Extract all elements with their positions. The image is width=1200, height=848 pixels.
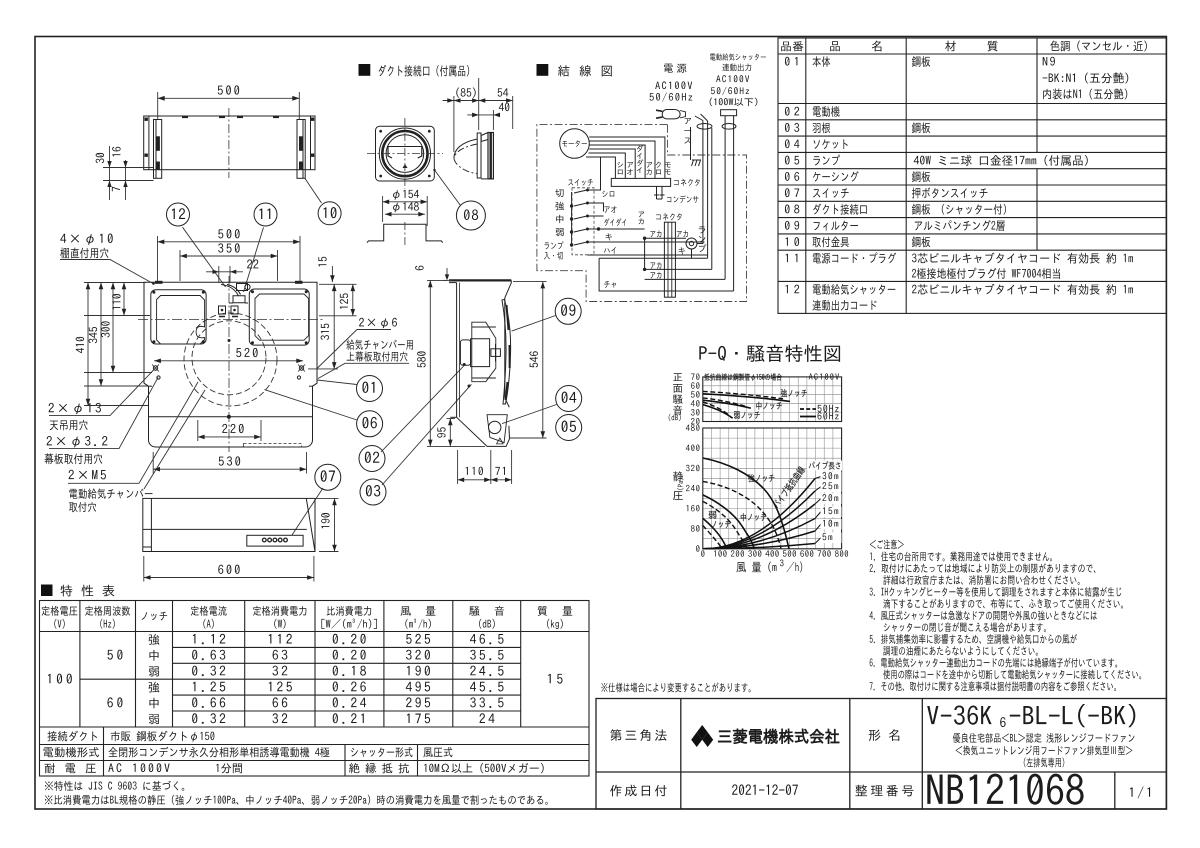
leader 08	[435, 170, 461, 206]
char table bottom rows	[47, 731, 97, 742]
y axis titles	[673, 373, 682, 381]
motor assembly	[460, 322, 496, 382]
motor	[560, 129, 590, 159]
title block grid	[596, 699, 1166, 810]
dim 530	[153, 452, 306, 474]
label electric chamber hole	[69, 488, 152, 498]
duct connector bottom profile	[367, 222, 443, 245]
dim 30 16 7	[103, 146, 154, 200]
switch	[568, 179, 593, 186]
x axis title	[736, 562, 776, 573]
shutter connector	[721, 110, 737, 116]
balloon 12	[167, 203, 190, 226]
dim 22 plan	[206, 266, 243, 283]
model name	[927, 705, 991, 724]
lamp compartment	[487, 415, 507, 444]
earth label	[684, 118, 691, 144]
duct connector side view	[454, 133, 494, 179]
duct connector front view	[376, 126, 435, 181]
dim 95	[447, 419, 456, 447]
connector bar	[611, 178, 670, 186]
top view body	[144, 116, 315, 170]
label 2x phi6	[359, 318, 397, 328]
mitsubishi logo	[691, 725, 713, 747]
leader 10	[305, 179, 322, 204]
spec change note	[601, 682, 750, 692]
power plug	[656, 110, 686, 119]
power bus wires	[695, 114, 734, 291]
P-Q chart title	[699, 345, 840, 362]
char table data	[48, 674, 72, 684]
chart y labels lower	[686, 424, 700, 431]
label 2x phi13	[49, 403, 101, 414]
balloon 06	[357, 411, 383, 437]
pipe length labels	[821, 472, 842, 483]
wire color labels	[617, 162, 623, 175]
section header: wiring diagram	[537, 64, 549, 76]
left filter opening	[151, 290, 206, 344]
duct elbow assembly	[219, 284, 251, 317]
label 2x phi3.2	[47, 436, 108, 447]
label kyuki chamber	[346, 339, 412, 349]
right filter opening	[249, 289, 309, 345]
cord grommets	[697, 124, 712, 130]
balloon 05	[556, 415, 582, 441]
upper noise curves 50Hz dashed	[703, 391, 783, 414]
char table header mark	[41, 585, 53, 597]
hidden switch panel in plan view	[244, 444, 302, 448]
power source labels	[664, 64, 687, 73]
balloon 07	[315, 464, 341, 490]
side view outline	[449, 280, 511, 446]
switch panel	[247, 535, 303, 546]
motor wires	[586, 137, 665, 178]
wiring unit boundary	[537, 124, 747, 301]
lamp	[686, 238, 697, 249]
parts table header	[781, 41, 803, 51]
dim 520	[154, 360, 303, 362]
ground symbol	[691, 127, 702, 166]
parts table grid	[778, 38, 1166, 313]
parts table rows	[785, 57, 797, 66]
lower P-Q curves 60Hz	[703, 458, 789, 549]
upper noise curves 60Hz	[703, 394, 790, 418]
top view centerline	[228, 108, 230, 178]
plan centerlines	[138, 319, 323, 321]
upper chart grid	[703, 377, 842, 422]
label 2xM5	[69, 470, 106, 480]
switch ladder	[572, 190, 587, 245]
table notes	[45, 781, 184, 791]
lower P-Q curves 50Hz dashed	[703, 481, 781, 548]
shutter output labels	[710, 53, 766, 60]
pipe resistance curves	[703, 479, 815, 549]
balloon 10	[318, 202, 341, 225]
dim 350 plan	[180, 250, 278, 281]
top view left hanger bracket	[154, 120, 162, 179]
dim 110 71	[458, 450, 512, 484]
dim 546	[509, 282, 547, 438]
left dim chain 410 345 300 110	[84, 283, 152, 406]
char table headers	[42, 606, 78, 616]
dim phi154	[383, 196, 428, 226]
lamp circuit wires	[599, 238, 734, 291]
legend	[800, 408, 816, 410]
label 4x phi10	[60, 233, 112, 244]
balloon 11	[254, 203, 277, 226]
dim 600	[144, 556, 314, 582]
dim 6	[443, 268, 452, 280]
switch wires	[588, 157, 708, 255]
balloon 08	[456, 201, 485, 230]
balloon 09	[555, 298, 581, 324]
dim 220	[198, 420, 261, 441]
condenser	[654, 186, 665, 199]
dim phi148	[385, 213, 425, 215]
chart y labels upper	[691, 373, 699, 380]
balloon 02	[359, 446, 385, 472]
balloon 04	[556, 386, 582, 412]
dim 500 plan	[158, 236, 301, 281]
dim 580	[427, 280, 485, 446]
front view body	[143, 498, 315, 551]
dim 500 top view	[158, 92, 300, 119]
dims (85) 54 40	[443, 78, 513, 152]
leader 11	[244, 227, 264, 292]
dim 190	[310, 498, 339, 551]
fan dashed circles	[192, 321, 266, 395]
balloon 01	[357, 376, 383, 402]
lower chart grid	[703, 428, 842, 549]
notes	[870, 540, 904, 550]
section header: duct connection	[359, 64, 371, 76]
filter screws	[152, 290, 307, 344]
lamp connector vertical	[664, 222, 675, 297]
top view right hanger bracket	[297, 120, 305, 179]
char table grid	[40, 601, 590, 777]
chart x labels	[701, 550, 704, 557]
leader 12	[183, 227, 226, 287]
plan view outer body	[144, 282, 317, 447]
balloon 03	[360, 479, 386, 505]
fan blade	[491, 300, 511, 405]
right dim chain 15 125 315	[308, 266, 357, 369]
corner hole marks	[152, 365, 305, 380]
